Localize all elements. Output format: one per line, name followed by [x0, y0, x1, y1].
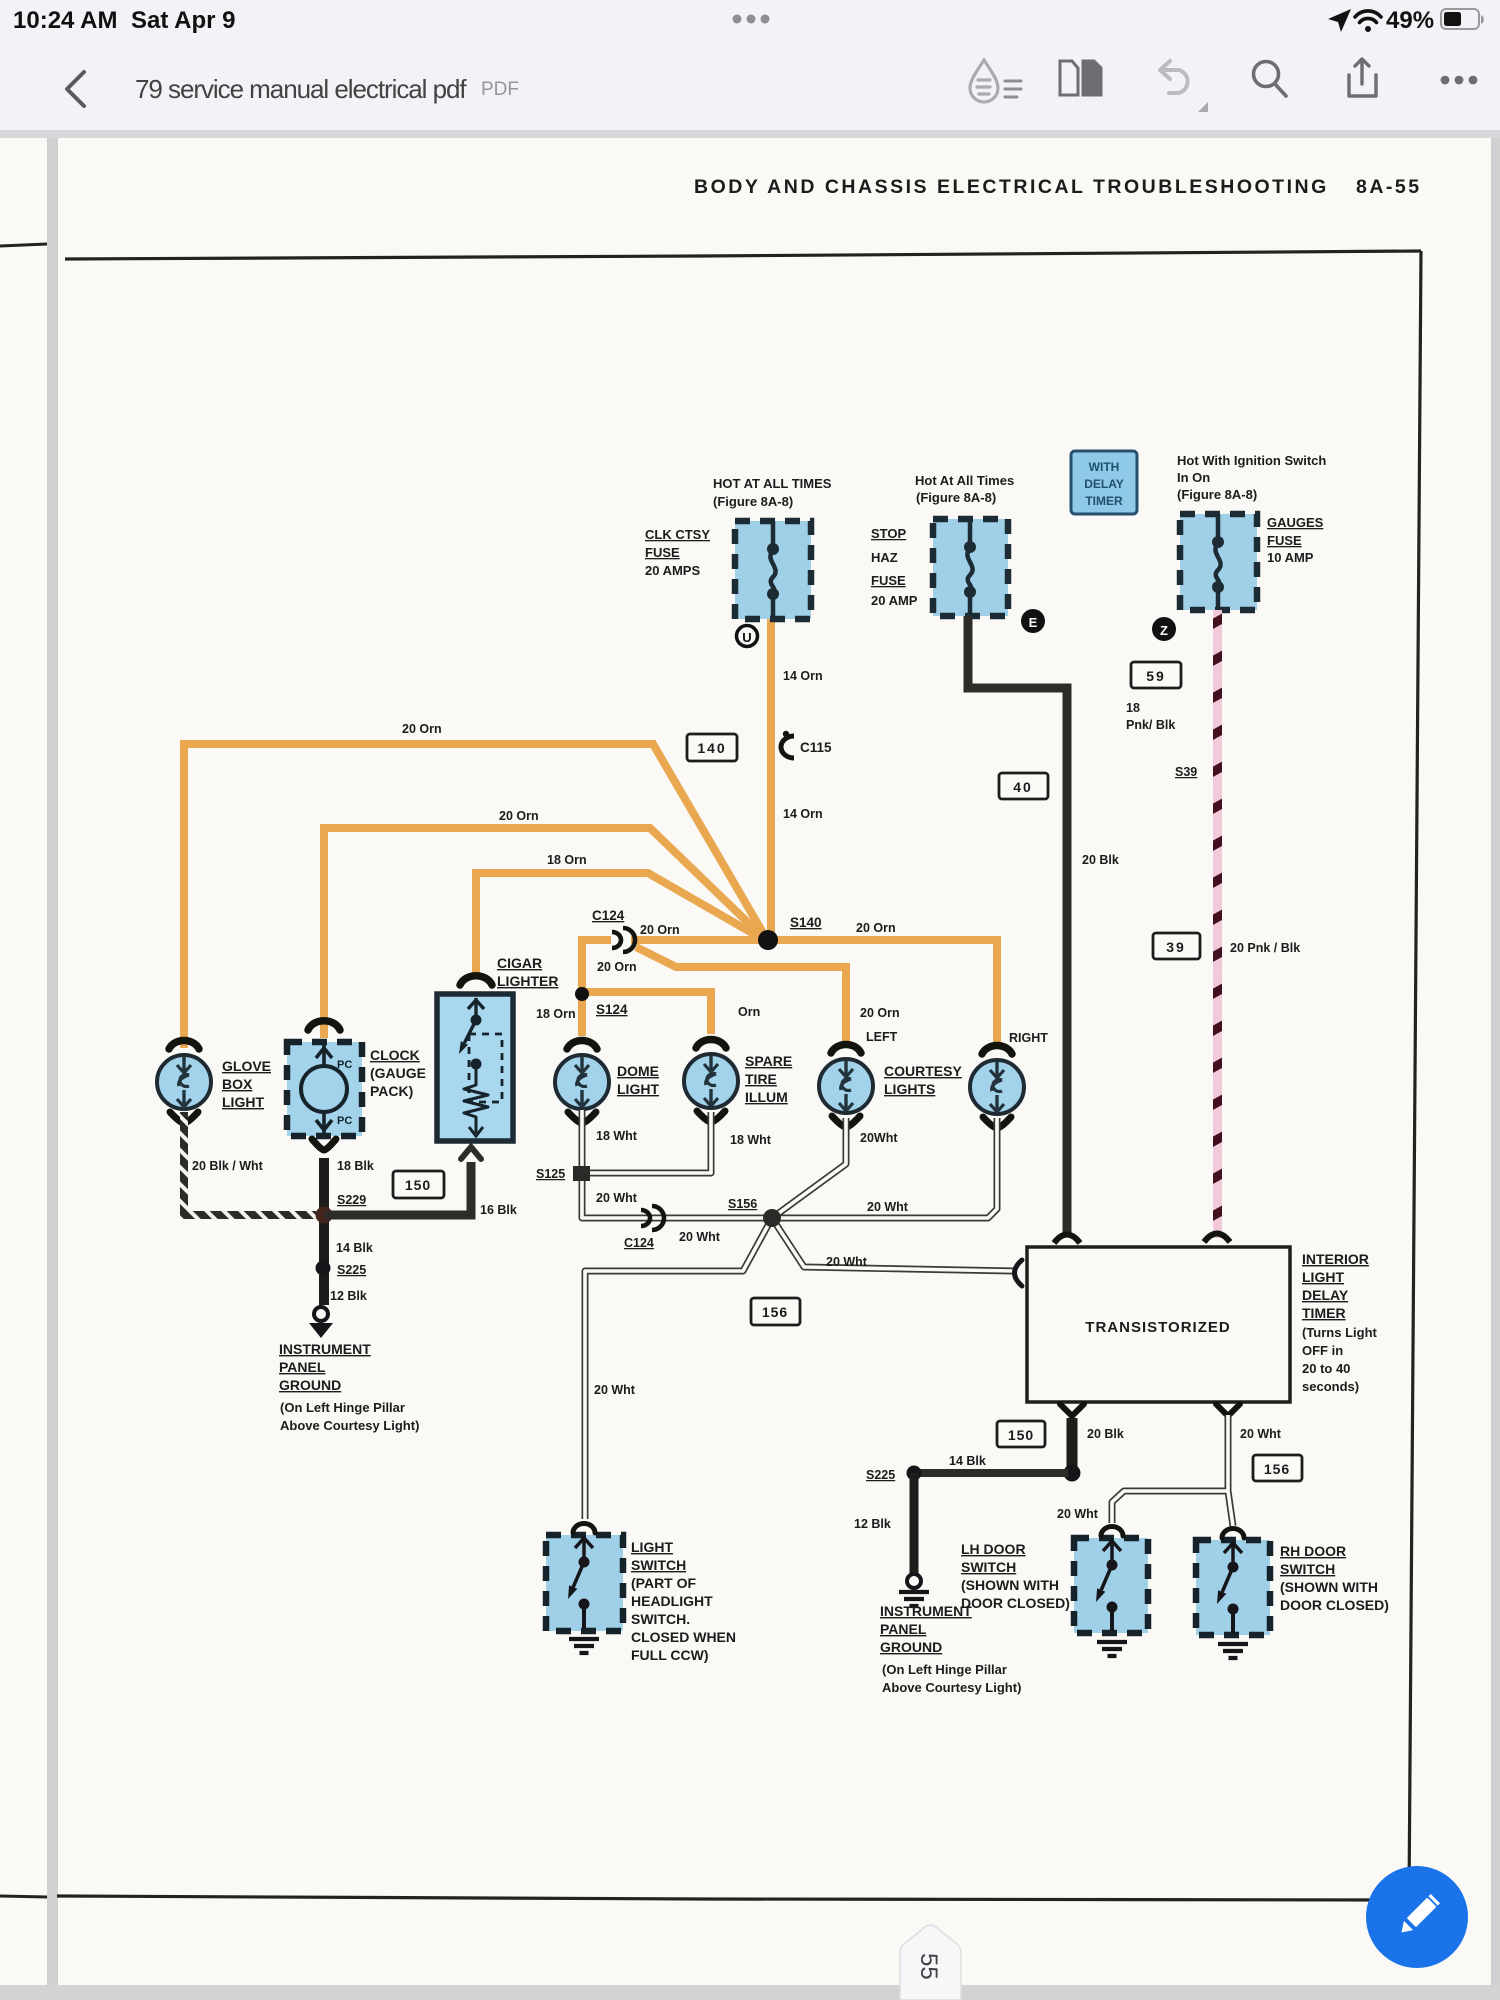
wire 18 Orn: S124 down to dome light	[578, 992, 586, 1036]
lamp: dome light	[555, 1041, 609, 1123]
wire 20 Pnk/Blk: GAUGES fuse to delay timer	[1213, 610, 1222, 1238]
instrument panel ground (right, eyelet + bars)	[899, 1574, 929, 1606]
wire 20 Wht: timer bottom to door switches	[1112, 1404, 1240, 1526]
toolbar icon: share	[1349, 59, 1376, 96]
status bar center dots	[733, 15, 770, 24]
splice S225 (right)	[866, 1466, 922, 1483]
svg-text:PDF: PDF	[481, 79, 519, 100]
location arrow icon	[1328, 9, 1351, 32]
wire 12 Blk: S225 down to instrument panel ground	[910, 1473, 919, 1574]
wire 18 Orn: S140 up-left to cigar lighter	[476, 873, 766, 977]
circuit number box 59	[1131, 662, 1181, 688]
lamp: spare tire illumination	[684, 1040, 738, 1122]
toolbar icon: undo (disabled)	[1160, 61, 1188, 93]
node Z (circled, filled)	[1152, 617, 1176, 641]
wire 20 Wht: S156 to light switch	[585, 1218, 772, 1519]
wire 20 Orn: S140 up-left to glove box light	[184, 744, 766, 1048]
wire 16 Blk: S229 right then up to cigar lighter	[324, 1162, 471, 1215]
wire 20 Blk: STOP HAZ fuse to delay timer	[968, 616, 1067, 1237]
svg-text:10:24 AM: 10:24 AM	[13, 7, 117, 34]
cigar lighter	[437, 976, 513, 1141]
lamp: left courtesy light	[819, 1045, 873, 1127]
fuse CLK CTSY 20 AMPS	[735, 521, 811, 619]
node U (circled)	[737, 626, 758, 647]
LH door switch	[1074, 1527, 1148, 1657]
wire Orn: S124 right then down to spare tire lamp	[582, 992, 711, 1034]
circuit number box 150 (left)	[393, 1171, 444, 1198]
timer unit U (transistorized)	[1015, 1247, 1291, 1402]
wire 18 Wht: S125 to spare tire lamp	[582, 1112, 711, 1173]
splice S140	[758, 915, 822, 950]
page number tab 55	[900, 1925, 961, 2000]
border frame: diagram bottom border	[57, 1896, 1409, 1900]
toolbar icon: more dots	[1441, 76, 1478, 85]
wire 20 Orn: C124 down-right then to left courtesy light	[636, 947, 846, 1042]
svg-text:55: 55	[915, 1953, 942, 1980]
lamp: glove box light	[157, 1041, 211, 1123]
lamp: right courtesy light	[970, 1046, 1024, 1128]
wire 20 Wht: S156 to left courtesy lamp	[772, 1118, 846, 1218]
light switch	[546, 1524, 623, 1654]
splice S125	[536, 1166, 590, 1181]
connector cap at timer top (pink wire)	[1204, 1234, 1230, 1243]
connector cap at timer top (black wire)	[1054, 1235, 1080, 1244]
wire 18 Wht: dome light to S125	[579, 1110, 586, 1173]
fuse STOP HAZ 20 AMP	[933, 519, 1008, 616]
border frame: diagram right border	[1409, 251, 1421, 1900]
circuit number box 40	[999, 773, 1048, 799]
instrument panel ground (left, eyelet + arrow)	[309, 1307, 333, 1338]
wire 14 Orn: CLK CTSY fuse U down to splice S140	[767, 617, 775, 938]
border frame: previous page top line	[0, 244, 47, 246]
battery icon	[1441, 9, 1479, 29]
wifi icon	[1355, 11, 1381, 32]
clock (gauge pack)	[287, 1021, 362, 1150]
circuit number box 150 (right)	[997, 1421, 1045, 1447]
with-delay-timer tag box	[1071, 451, 1137, 514]
wire 20 Wht: S125 down then right through C124 to S156	[582, 1173, 770, 1218]
fuse GAUGES 10 AMP	[1180, 514, 1257, 610]
edit FAB button	[1366, 1866, 1468, 1968]
border frame: diagram top border	[65, 251, 1421, 259]
wire 18 Blk: clock down through S229, S225 to ground arrow	[319, 1158, 329, 1305]
wire 20 Wht: S156 to right courtesy lamp	[772, 1118, 997, 1218]
RH door switch	[1196, 1529, 1270, 1659]
splice S229	[316, 1193, 367, 1224]
wire 20 Orn: S140 left through connector C124 to splice S124	[582, 940, 768, 992]
connector C124 (white run)	[624, 1206, 664, 1250]
wire 20 Orn: S140 up-left to clock	[324, 828, 766, 1038]
wire 20 Wht: S156 to delay timer left side	[772, 1218, 1014, 1271]
wire 20 Blk/Wht: glove box light to S229 (striped)	[180, 1112, 316, 1215]
border frame: previous page bottom line	[0, 1896, 47, 1897]
splice S225 (left)	[316, 1261, 367, 1278]
circuit number box 156 (right)	[1253, 1455, 1302, 1481]
svg-text:79 service manual electrical p: 79 service manual electrical pdf	[135, 74, 467, 104]
toolbar icon: comment/ink droplet	[970, 60, 998, 102]
circuit number box 156 (left)	[751, 1298, 800, 1325]
node E (circled, filled)	[1021, 609, 1045, 633]
circuit number box 140	[687, 734, 737, 761]
splice S156	[728, 1197, 781, 1227]
svg-text:Sat Apr 9: Sat Apr 9	[131, 7, 235, 34]
toolbar icon: two pages	[1060, 61, 1101, 95]
back chevron	[67, 72, 84, 106]
circuit number box 39	[1153, 933, 1200, 959]
toolbar icon: search	[1254, 62, 1287, 97]
svg-text:49%: 49%	[1386, 7, 1434, 34]
connector C124 (orange run)	[592, 908, 635, 952]
wire 14 Blk: S225 to timer stub	[914, 1469, 1068, 1477]
wire 20 Orn: S140 right then down to right courtesy light	[769, 940, 997, 1042]
connector C115 on 14 Orn wire	[781, 731, 832, 758]
wire 20 Blk: timer bottom stub to S225 junction	[1060, 1404, 1084, 1482]
splice S124	[575, 987, 628, 1017]
